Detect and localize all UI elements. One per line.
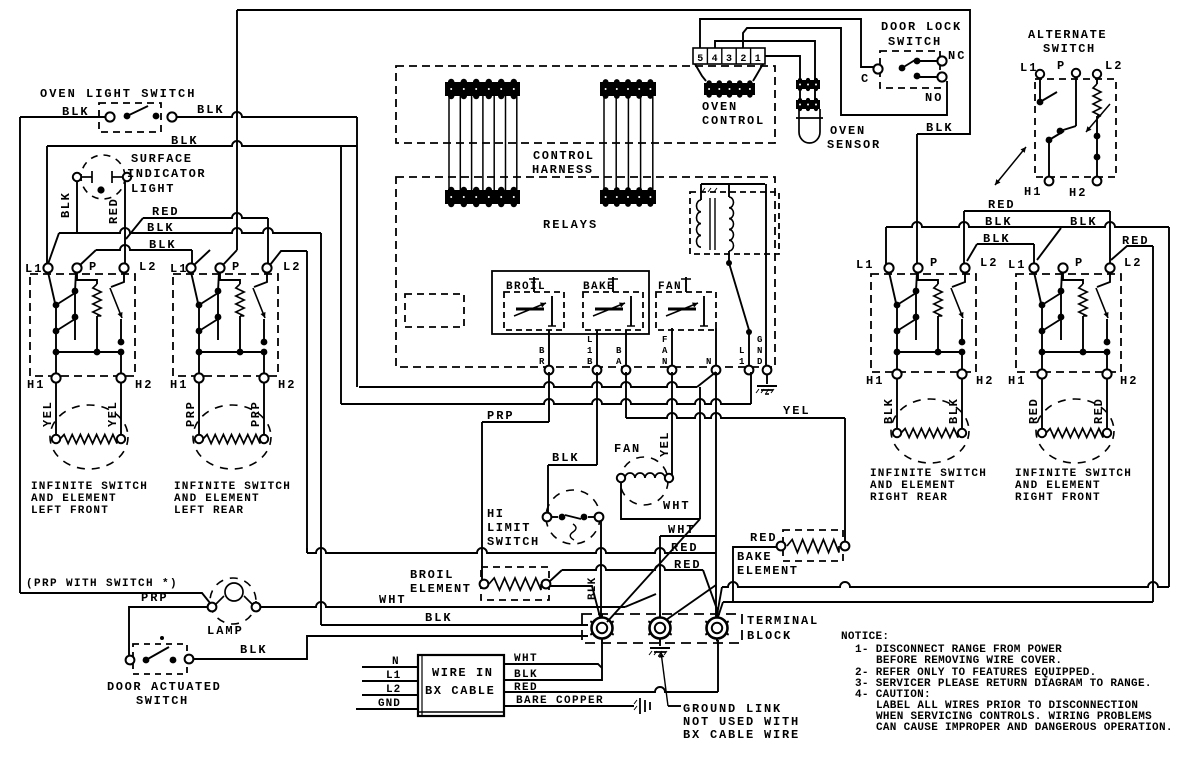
- svg-text:3: 3: [726, 54, 732, 65]
- svg-text:SENSOR: SENSOR: [827, 138, 881, 152]
- wire L2 left rear to vertical x307: [270, 251, 307, 553]
- svg-text:LIMIT: LIMIT: [487, 521, 531, 535]
- label PRP lamp: [141, 591, 169, 605]
- svg-text:GND: GND: [378, 698, 401, 710]
- svg-text:WHT: WHT: [514, 653, 538, 665]
- label YEL rotated fan: [658, 431, 672, 457]
- wire oven control pin2 to door lock NO: [743, 28, 947, 115]
- label BLK y244: [983, 232, 1011, 246]
- labels alternate switch terminals: [1020, 59, 1123, 200]
- svg-text:INFINITE SWITCH: INFINITE SWITCH: [174, 481, 291, 493]
- relay terminals row: [545, 366, 772, 375]
- svg-text:P: P: [930, 256, 939, 270]
- svg-text:BROIL: BROIL: [410, 568, 454, 582]
- earth ground under terminal 2: [649, 638, 670, 656]
- svg-text:RED: RED: [1122, 234, 1150, 248]
- wire diagonal terminal1 to fan WHT corner: [607, 519, 700, 622]
- svg-text:NC: NC: [948, 49, 966, 63]
- wire y587 from BLK border to terminal 3: [717, 582, 1169, 615]
- wire vertical x917 from door lock down to P of right rear switch: [916, 134, 918, 264]
- label BX WHT: [514, 653, 538, 665]
- wire oven control pin1 to oven sensor left: [765, 56, 800, 80]
- label HI LIMIT SWITCH: [487, 507, 540, 549]
- svg-text:OVEN: OVEN: [830, 124, 866, 138]
- relays dashed box: [396, 177, 775, 367]
- label WHT lamp: [379, 593, 407, 607]
- wire BLK from left border to oven light switch: [20, 116, 106, 118]
- wire BLK bus y233: [48, 228, 321, 264]
- wire BX BLK: [504, 676, 602, 680]
- svg-text:BLK: BLK: [926, 121, 954, 135]
- label BROIL: [506, 281, 546, 293]
- oven sensor connector bars: [796, 78, 820, 111]
- label DOOR ACTUATED SWITCH: [107, 680, 221, 708]
- oven sensor bulb: [796, 109, 823, 143]
- diagonal L1 right front to BLK bus: [1037, 228, 1061, 260]
- label BX RED: [514, 682, 538, 694]
- wire BX RED to terminal 3: [504, 640, 718, 692]
- terminal block dashed box: [582, 614, 742, 643]
- wire main left vertical x237 from top line down to P of left rear switch: [222, 10, 237, 266]
- svg-text:RED: RED: [1092, 398, 1106, 424]
- svg-text:CONTROL: CONTROL: [702, 114, 765, 128]
- svg-text:BX CABLE: BX CABLE: [425, 684, 495, 698]
- svg-text:BLK: BLK: [149, 238, 177, 252]
- wire BX bare copper: [504, 705, 634, 707]
- label GROUND LINK NOT USED: [683, 702, 800, 742]
- svg-text:DOOR LOCK: DOOR LOCK: [881, 20, 962, 34]
- label OVEN CONTROL: [702, 100, 765, 128]
- wire BLK from L1B terminal to hi limit switch: [548, 372, 597, 513]
- svg-text:RED: RED: [152, 205, 180, 219]
- label OVEN LIGHT SWITCH: [40, 87, 196, 101]
- svg-text:L1: L1: [170, 262, 188, 276]
- infinite switch and element right front: [1016, 263, 1121, 463]
- arrow pointing to alternate switch: [995, 147, 1026, 185]
- svg-text:LEFT REAR: LEFT REAR: [174, 505, 244, 517]
- wire y602 from RED border to terminal 3: [717, 602, 1153, 620]
- svg-text:(PRP WITH SWITCH *): (PRP WITH SWITCH *): [26, 578, 178, 590]
- label BLK door switch: [240, 643, 268, 657]
- svg-text:YEL: YEL: [658, 431, 672, 457]
- oven control connector bar: [704, 80, 755, 97]
- oven control numbered connector: [693, 48, 765, 81]
- label NC: [948, 49, 966, 63]
- terminal block terminal 2: [648, 615, 671, 642]
- wire BLK x321 corner to terminal 1: [321, 624, 588, 626]
- wire BLK bus right y227: [886, 222, 1169, 227]
- svg-text:L1: L1: [856, 258, 874, 272]
- svg-text:BLK: BLK: [147, 221, 175, 235]
- label PRP WITH SWITCH: [26, 578, 178, 590]
- wire oven control pin4 to oven sensor right: [715, 41, 815, 80]
- svg-text:BAKE: BAKE: [737, 550, 772, 564]
- svg-text:TERMINAL: TERMINAL: [747, 614, 819, 628]
- wire right border x1169: [1168, 227, 1170, 587]
- svg-text:B: B: [587, 357, 593, 367]
- svg-text:PRP: PRP: [184, 401, 198, 427]
- svg-text:BLK: BLK: [514, 669, 538, 681]
- label BX BLK: [514, 669, 538, 681]
- label WHT fan: [663, 499, 691, 513]
- hi limit switch: [543, 490, 604, 544]
- svg-text:HI: HI: [487, 507, 505, 521]
- label FAN motor: [614, 442, 641, 456]
- label BLK hi limit: [552, 451, 580, 465]
- label NO: [925, 91, 943, 105]
- labels BLK right bus: [985, 215, 1098, 229]
- svg-text:BEFORE REMOVING WIRE COVER.: BEFORE REMOVING WIRE COVER.: [876, 655, 1062, 667]
- svg-text:2: 2: [740, 54, 746, 65]
- relay FAN: [656, 277, 716, 330]
- label RED on bus: [152, 205, 180, 219]
- surface indicator light DS1: [73, 155, 131, 199]
- wire RED bus y218: [126, 213, 268, 239]
- wire RED2 y570 from broil right to terminal 3: [550, 565, 718, 612]
- label BLK rotated at terminal riser: [587, 577, 599, 600]
- svg-text:H2: H2: [278, 378, 296, 392]
- wire vertical x321 BLK down left: [320, 233, 322, 625]
- door lock switch: [873, 51, 946, 88]
- label RED rotated: [107, 198, 121, 224]
- label C: [861, 72, 870, 86]
- svg-text:BROIL: BROIL: [506, 281, 546, 293]
- svg-text:AND ELEMENT: AND ELEMENT: [174, 493, 260, 505]
- svg-text:RED: RED: [514, 682, 538, 694]
- empty dashed box: [405, 294, 464, 327]
- svg-text:BLK: BLK: [197, 103, 225, 117]
- svg-text:H1: H1: [866, 374, 884, 388]
- svg-text:D: D: [757, 357, 763, 367]
- svg-text:OVEN: OVEN: [702, 100, 738, 114]
- svg-text:NOT USED WITH: NOT USED WITH: [683, 715, 800, 729]
- svg-text:RED: RED: [1027, 398, 1041, 424]
- svg-text:YEL: YEL: [106, 401, 120, 427]
- BX terminals: [356, 667, 418, 709]
- svg-text:H1: H1: [27, 378, 45, 392]
- labels relay terminals: [539, 335, 763, 367]
- svg-text:L1: L1: [386, 670, 401, 682]
- svg-text:SWITCH: SWITCH: [136, 694, 189, 708]
- svg-text:N: N: [706, 357, 711, 367]
- svg-text:PRP: PRP: [141, 591, 169, 605]
- svg-text:NOTICE:: NOTICE:: [841, 631, 889, 643]
- label BLK left of oven light switch: [62, 105, 90, 119]
- wire BLK bus y250: [79, 245, 192, 266]
- wire PRP with switch run: [20, 593, 210, 603]
- svg-text:INFINITE SWITCH: INFINITE SWITCH: [31, 481, 148, 493]
- svg-text:N: N: [392, 656, 400, 668]
- fan motor: [617, 457, 673, 505]
- label BARE COPPER: [516, 695, 604, 707]
- relay enclosure box: [492, 271, 649, 334]
- svg-text:CONTROL: CONTROL: [533, 149, 595, 163]
- svg-text:L2: L2: [1124, 256, 1142, 270]
- wire FAN terminal down to fan motor: [671, 372, 673, 476]
- svg-text:N: N: [662, 357, 667, 367]
- label DOOR LOCK SWITCH: [881, 20, 962, 49]
- alternate switch: [1035, 69, 1116, 186]
- svg-text:SWITCH: SWITCH: [888, 35, 942, 49]
- svg-text:ELEMENT: ELEMENT: [410, 582, 472, 596]
- labels left front unit: [25, 260, 157, 427]
- labels right rear unit: [856, 256, 998, 424]
- ground link arrow: [659, 652, 681, 706]
- labels left rear unit: [170, 260, 301, 427]
- oven lamp: [208, 578, 261, 624]
- label RED y553: [671, 541, 699, 555]
- svg-text:LEFT FRONT: LEFT FRONT: [31, 505, 109, 517]
- terminal block terminal 3: [705, 615, 728, 642]
- svg-text:1: 1: [587, 346, 593, 356]
- svg-text:FAN: FAN: [658, 281, 682, 293]
- labels BX terminals: [378, 656, 401, 710]
- chassis ground bare copper: [634, 698, 650, 714]
- wire RED bus right y211: [964, 210, 1110, 212]
- relay BROIL: [504, 277, 564, 330]
- svg-text:N: N: [757, 346, 762, 356]
- label ALTERNATE SWITCH: [1028, 28, 1107, 56]
- infinite switch and element left rear: [173, 263, 278, 469]
- label BLK bus2: [149, 238, 177, 252]
- svg-text:BLK: BLK: [552, 451, 580, 465]
- svg-text:A: A: [616, 357, 622, 367]
- wire transformer to GND terminal: [765, 184, 767, 366]
- svg-text:NO: NO: [925, 91, 943, 105]
- caption left front: [31, 481, 148, 517]
- svg-text:L1: L1: [1008, 258, 1026, 272]
- label FAN: [658, 281, 682, 293]
- wires relay terminals up into relay boxes: [549, 328, 716, 366]
- svg-text:BLK: BLK: [59, 192, 73, 218]
- svg-text:SWITCH: SWITCH: [1043, 42, 1096, 56]
- svg-text:H1: H1: [1008, 374, 1026, 388]
- svg-text:RED: RED: [671, 541, 699, 555]
- wire RED from L2 right front to right border: [1111, 246, 1153, 260]
- wire BLK from door switch to terminal 1: [193, 636, 588, 659]
- svg-text:BLOCK: BLOCK: [747, 629, 792, 643]
- svg-text:RELAYS: RELAYS: [543, 218, 598, 232]
- label BAKE ELEMENT: [737, 550, 799, 578]
- notice text block: [841, 631, 1173, 734]
- harness connector left: [445, 79, 520, 207]
- label BLK y625: [425, 611, 453, 625]
- svg-text:PRP: PRP: [487, 409, 515, 423]
- caption left rear: [174, 481, 291, 517]
- wire N vertical down to terminal block 3: [715, 372, 717, 618]
- harness connector right: [600, 79, 656, 207]
- svg-text:ELEMENT: ELEMENT: [737, 564, 799, 578]
- wire BX WHT: [504, 664, 602, 668]
- svg-text:LIGHT: LIGHT: [131, 182, 175, 196]
- svg-text:CAN CAUSE IMPROPER AND DANGERO: CAN CAUSE IMPROPER AND DANGEROUS OPERATI…: [876, 722, 1173, 734]
- label BROIL ELEMENT: [410, 568, 472, 596]
- wire RED drop L2 right front: [1109, 211, 1111, 264]
- svg-text:HARNESS: HARNESS: [532, 163, 594, 177]
- svg-text:RED: RED: [750, 531, 778, 545]
- svg-text:FAN: FAN: [614, 442, 641, 456]
- wire terminal2 riser: [659, 536, 661, 618]
- wire bus2 y404: [341, 372, 751, 404]
- svg-text:P: P: [1075, 256, 1084, 270]
- svg-text:H1: H1: [170, 378, 188, 392]
- label RED bake: [750, 531, 778, 545]
- svg-text:SURFACE: SURFACE: [131, 152, 193, 166]
- earth ground at GND terminal: [756, 374, 777, 394]
- svg-text:L2: L2: [139, 260, 157, 274]
- svg-text:INFINITE SWITCH: INFINITE SWITCH: [870, 468, 987, 480]
- wire BLK y244 segment: [967, 244, 1034, 264]
- svg-text:WHT: WHT: [663, 499, 691, 513]
- svg-text:L1: L1: [1020, 61, 1038, 75]
- svg-text:L: L: [587, 335, 592, 345]
- svg-text:H2: H2: [1120, 374, 1138, 388]
- svg-text:INDICATOR: INDICATOR: [127, 167, 206, 181]
- svg-text:OVEN LIGHT SWITCH: OVEN LIGHT SWITCH: [40, 87, 196, 101]
- wire BLK horizontal y146: [47, 141, 357, 146]
- label BAKE: [583, 281, 615, 293]
- svg-text:RED: RED: [107, 198, 121, 224]
- svg-text:BLK: BLK: [1070, 215, 1098, 229]
- label RED right border: [1122, 234, 1150, 248]
- wire BLK bus corner down to L1 right rear: [885, 227, 887, 264]
- svg-text:YEL: YEL: [783, 404, 811, 418]
- svg-text:YEL: YEL: [41, 401, 55, 427]
- label TERMINAL BLOCK: [747, 614, 819, 643]
- wire right border x1153: [1152, 246, 1154, 602]
- svg-text:RIGHT REAR: RIGHT REAR: [870, 492, 948, 504]
- svg-text:L2: L2: [386, 684, 401, 696]
- svg-text:BLK: BLK: [171, 134, 199, 148]
- svg-text:B: B: [616, 346, 622, 356]
- wire WHT from lamp right: [260, 594, 656, 607]
- svg-text:BAKE: BAKE: [583, 281, 615, 293]
- svg-text:R: R: [539, 357, 545, 367]
- control harness dashed box: [396, 66, 775, 143]
- label CONTROL HARNESS: [532, 149, 595, 177]
- svg-text:BLK: BLK: [62, 105, 90, 119]
- svg-text:4: 4: [712, 54, 718, 65]
- label SURFACE INDICATOR LIGHT: [127, 152, 206, 196]
- wire x700 stub from bus1 down to fan WHT corner: [699, 387, 701, 519]
- svg-text:L: L: [739, 346, 744, 356]
- door actuated switch: [126, 636, 194, 674]
- label BLK right of oven light switch: [197, 103, 225, 117]
- svg-text:AND ELEMENT: AND ELEMENT: [31, 493, 117, 505]
- svg-text:BLK: BLK: [947, 398, 961, 424]
- label WIRE IN BX CABLE: [425, 666, 495, 698]
- label WHT2: [668, 523, 696, 537]
- wire top BLK run from node at x237 to door lock area: [237, 10, 970, 134]
- svg-text:BLK: BLK: [985, 215, 1013, 229]
- oven light switch S1: [99, 103, 177, 132]
- svg-text:LAMP: LAMP: [207, 624, 244, 638]
- svg-text:L2: L2: [980, 256, 998, 270]
- svg-text:P: P: [1057, 59, 1066, 73]
- svg-text:AND ELEMENT: AND ELEMENT: [1015, 480, 1101, 492]
- wire long y553: [307, 548, 716, 553]
- svg-text:RED: RED: [674, 558, 702, 572]
- label BLK door lock: [926, 121, 954, 135]
- wire left border vertical: [19, 117, 21, 593]
- svg-text:INFINITE SWITCH: INFINITE SWITCH: [1015, 468, 1132, 480]
- svg-text:5: 5: [697, 54, 703, 65]
- wire broil right to terminal 1: [550, 586, 600, 617]
- svg-text:L2: L2: [283, 260, 301, 274]
- wire RED bus drop to L2 left rear: [267, 218, 269, 264]
- svg-text:H2: H2: [1069, 186, 1087, 200]
- svg-text:AND ELEMENT: AND ELEMENT: [870, 480, 956, 492]
- wire terminal1 tail: [601, 638, 603, 676]
- svg-text:H1: H1: [1024, 185, 1042, 199]
- label BLK bus1: [147, 221, 175, 235]
- svg-text:F: F: [662, 335, 667, 345]
- transformer T1: [690, 184, 779, 335]
- svg-text:WHT: WHT: [668, 523, 696, 537]
- label RED right bus: [988, 198, 1016, 212]
- svg-text:1: 1: [739, 357, 745, 367]
- label OVEN SENSOR: [827, 124, 881, 152]
- terminal block terminal 1: [590, 615, 613, 642]
- infinite switch and element left front: [30, 263, 135, 469]
- label RED2: [674, 558, 702, 572]
- svg-text:SWITCH: SWITCH: [487, 535, 540, 549]
- label BLK on y146 wire: [171, 134, 199, 148]
- svg-text:GROUND LINK: GROUND LINK: [683, 702, 782, 716]
- relay BAKE: [583, 277, 643, 330]
- wire BLK from indicator left terminal down to bus y233: [76, 181, 78, 233]
- wire vertical x341 from y146 down to relay bus2: [340, 146, 342, 404]
- diagonal L1 left rear to bus: [194, 250, 210, 265]
- svg-text:P: P: [89, 260, 98, 274]
- wire hi limit right terminal down to terminal 1: [600, 521, 602, 617]
- svg-text:BARE COPPER: BARE COPPER: [516, 695, 604, 707]
- svg-text:L2: L2: [1105, 59, 1123, 73]
- wire bus1 y387: [359, 372, 716, 387]
- label BLK rotated: [59, 192, 73, 218]
- wire RED drop to L2 right rear: [963, 211, 965, 264]
- wire oven control pin5 to door lock common: [700, 19, 874, 67]
- svg-text:RIGHT FRONT: RIGHT FRONT: [1015, 492, 1101, 504]
- svg-text:DOOR ACTUATED: DOOR ACTUATED: [107, 680, 221, 694]
- svg-text:BX CABLE WIRE: BX CABLE WIRE: [683, 728, 800, 742]
- broil element: [480, 567, 551, 600]
- wire RED bake left y547: [733, 547, 777, 602]
- wire L1 left front feed from BLK y146: [46, 146, 48, 264]
- infinite switch and element right rear: [871, 263, 976, 463]
- wire BLK from oven light switch right toward center: [177, 112, 357, 117]
- label LAMP: [207, 624, 244, 638]
- wire diagonal terminal2 to N vertical: [666, 585, 716, 620]
- wire RED from indicator right terminal down to L2 left front: [124, 181, 126, 264]
- caption right rear: [870, 468, 987, 504]
- svg-text:L1: L1: [25, 262, 43, 276]
- wire PRP lamp to door switch: [129, 607, 212, 657]
- label RELAYS: [543, 218, 598, 232]
- wire transformer to L1 terminal: [748, 332, 750, 366]
- svg-text:WIRE IN: WIRE IN: [432, 666, 494, 680]
- wire WHT from fan left terminal: [621, 482, 700, 519]
- wire vertical x357 down to relay bus1: [356, 117, 358, 387]
- wire WHT2 y536 terminal2 to N vertical: [660, 535, 716, 537]
- svg-text:H2: H2: [135, 378, 153, 392]
- labels right front unit: [1008, 256, 1142, 424]
- svg-text:BLK: BLK: [425, 611, 453, 625]
- svg-text:WHT: WHT: [379, 593, 407, 607]
- svg-text:C: C: [861, 72, 870, 86]
- svg-text:BLK: BLK: [882, 398, 896, 424]
- svg-text:P: P: [232, 260, 241, 274]
